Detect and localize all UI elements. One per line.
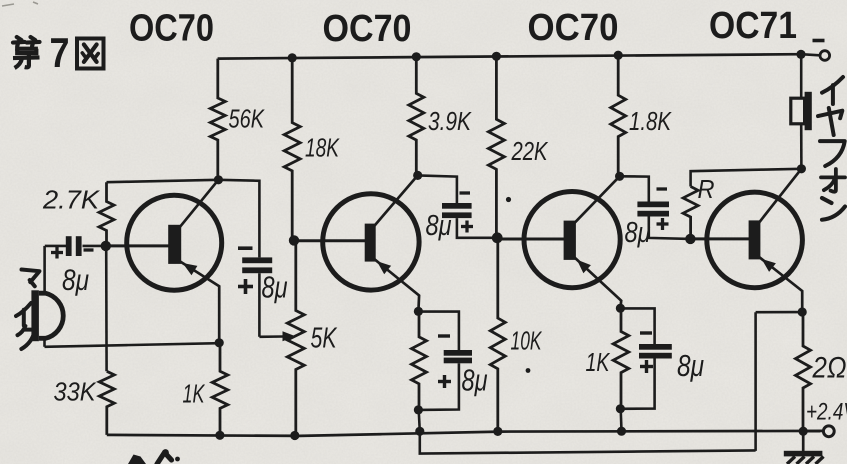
svg-text:OC70: OC70 xyxy=(528,7,619,49)
svg-text:+2.4V: +2.4V xyxy=(806,399,847,426)
svg-text:R: R xyxy=(698,174,715,204)
svg-text:7: 7 xyxy=(50,29,70,76)
svg-text:8μ: 8μ xyxy=(62,264,89,297)
svg-text:2Ω: 2Ω xyxy=(812,352,847,385)
svg-text:OC70: OC70 xyxy=(129,8,214,50)
svg-text:3.9K: 3.9K xyxy=(428,106,472,136)
svg-text:2.7K: 2.7K xyxy=(42,185,101,215)
svg-text:5K: 5K xyxy=(311,323,338,355)
svg-text:1.8K: 1.8K xyxy=(629,106,672,136)
svg-text:8μ: 8μ xyxy=(462,363,488,398)
svg-text:18K: 18K xyxy=(305,133,340,163)
svg-text:8μ: 8μ xyxy=(262,270,288,305)
svg-text:OC71: OC71 xyxy=(709,5,797,47)
svg-text:8μ: 8μ xyxy=(426,210,452,242)
svg-text:8μ: 8μ xyxy=(677,348,704,383)
svg-text:1K: 1K xyxy=(586,347,611,377)
svg-text:OC70: OC70 xyxy=(323,8,412,50)
svg-text:10K: 10K xyxy=(511,326,543,356)
svg-text:1K: 1K xyxy=(183,379,206,409)
svg-text:8μ: 8μ xyxy=(625,217,651,249)
svg-text:33K: 33K xyxy=(54,377,98,407)
svg-text:22K: 22K xyxy=(511,136,549,166)
svg-text:56K: 56K xyxy=(229,104,266,134)
